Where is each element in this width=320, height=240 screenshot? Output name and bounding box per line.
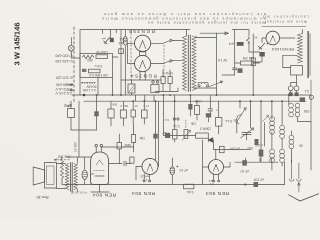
- svg-text:uF 250: uF 250: [230, 147, 240, 151]
- svg-text:4 V: 4 V: [210, 182, 214, 186]
- svg-text:038: 038: [304, 109, 310, 113]
- detector cap C14b dark: [259, 150, 264, 157]
- capacitor C5 box on wire: [119, 49, 124, 54]
- phono jack P1: [288, 86, 293, 91]
- electrolytic C4 oval: [123, 36, 127, 45]
- electrolytic C6: [237, 42, 244, 46]
- wire: [78, 101, 80, 157]
- svg-text:0,5 u: 0,5 u: [95, 64, 102, 68]
- svg-text:400: 400: [87, 58, 93, 62]
- coil tap wires: [283, 55, 298, 67]
- svg-text:V=125-150: V=125-150: [55, 59, 73, 63]
- resistor R21 box: [143, 101, 145, 110]
- svg-text:50 kW: 50 kW: [86, 85, 97, 89]
- grid leak wire: [202, 140, 204, 185]
- wire drop: [234, 29, 236, 68]
- capacitor C1 small box: [82, 69, 86, 72]
- cap C20 dark: [165, 133, 170, 138]
- detector plate wire: [213, 148, 250, 150]
- svg-text:REN 904: REN 904: [132, 190, 155, 196]
- internal electrodes: [94, 170, 106, 172]
- pilot lamp La: [68, 45, 74, 51]
- cap C24 plates: [208, 95, 213, 113]
- resistor R12 box with label: [216, 118, 222, 127]
- band filter BF2 primary: [270, 149, 275, 162]
- cap C18 dark on wire: [242, 160, 247, 165]
- volume control pot: [236, 115, 241, 124]
- mains dashed boundary: [73, 27, 75, 103]
- svg-text:4 V t: 4 V t: [142, 178, 148, 182]
- jack sleeve contacts: [289, 92, 293, 96]
- heater tap line: [121, 79, 161, 81]
- wire drop: [109, 30, 111, 38]
- rectifier tube V1 RGN354: [135, 35, 151, 51]
- junction stubs: [246, 158, 272, 162]
- dropper R20 below bus: [70, 101, 72, 108]
- AF tube V6 REN904: [209, 160, 224, 175]
- svg-text:V=220-240: V=220-240: [55, 53, 73, 57]
- gang dashed line to pot: [185, 120, 187, 129]
- svg-text:10 kW: 10 kW: [74, 142, 78, 152]
- grid feed wire: [101, 146, 133, 148]
- svg-text:REN 904: REN 904: [93, 192, 116, 198]
- svg-text:Rns 302: Rns 302: [58, 155, 71, 159]
- capacitor C7: [233, 68, 237, 70]
- transformer leads: [187, 30, 197, 38]
- shield wire right: [284, 162, 286, 184]
- resistor R8 box: [122, 101, 124, 110]
- audion tube V3: [266, 31, 280, 45]
- grid trimmer marks: [258, 43, 265, 50]
- resistor R5 zigzag: [246, 37, 249, 43]
- cap C10: [96, 95, 98, 111]
- svg-text:4 V 0,3 A 30: 4 V 0,3 A 30: [70, 191, 87, 195]
- svg-text:u2: u2: [162, 131, 166, 135]
- cathode lead: [91, 185, 109, 193]
- resistor R3 box: [89, 69, 101, 73]
- cathode electrolytic C17: [170, 167, 175, 175]
- mains terminal labels (upside-down rows): [55, 53, 73, 95]
- voltage-dropping resistor box (enclosure): [80, 54, 113, 78]
- cap C14: [255, 139, 259, 145]
- svg-text:0,1u: 0,1u: [173, 124, 179, 128]
- detector output wire: [235, 161, 278, 163]
- svg-text:u 160: u 160: [255, 144, 263, 148]
- resistor R18 on chassis wire: [184, 184, 194, 189]
- top cap leads: [96, 147, 101, 152]
- secondary winding: [192, 36, 196, 90]
- svg-text:uF 100: uF 100: [254, 178, 264, 182]
- bottom chassis wire: [63, 184, 285, 186]
- switch contact S1a: [163, 39, 173, 43]
- resistor R2 box 1300 ohm: [96, 55, 108, 59]
- svg-text:4 x 1 kW: 4 x 1 kW: [82, 88, 96, 92]
- heater dropping resistors: [161, 77, 165, 84]
- svg-text:12k 3: 12k 3: [194, 100, 202, 104]
- heater bus lower: [84, 100, 306, 102]
- field coil hatch box: [128, 84, 135, 93]
- svg-text:12k: 12k: [233, 118, 238, 122]
- variable capacitor C13: [242, 133, 251, 135]
- pot drop wire: [236, 122, 238, 133]
- earth clip terminals: [290, 160, 294, 181]
- antenna symbol: [289, 194, 319, 201]
- mains live wire: [79, 30, 81, 95]
- output tube V4 REN904 (dome envelope): [91, 152, 109, 185]
- svg-text:RGN354: RGN354: [129, 29, 155, 34]
- band filter BF2 secondary: [280, 149, 285, 162]
- svg-text:Werk am Freilauf: Werk am Freilauf: [265, 19, 307, 23]
- transformer core: [188, 35, 190, 92]
- bypass cap C19: [254, 182, 259, 187]
- selector arrows into dashed line: [66, 84, 74, 86]
- stub supply line: [232, 28, 248, 30]
- svg-text:0,1u: 0,1u: [225, 119, 232, 123]
- coupling cap C16: [109, 161, 131, 166]
- right edge rail upper: [310, 80, 312, 122]
- socket box: [151, 85, 159, 93]
- grid electrolytic dark: [259, 52, 264, 57]
- resistor R7 below bus: [110, 101, 112, 109]
- wire to right rail: [298, 117, 312, 170]
- filament legs: [144, 174, 149, 181]
- HT feed rail: [252, 34, 254, 95]
- resistor R22 box vertical: [251, 58, 255, 66]
- caption underline: [262, 25, 306, 27]
- antenna terminal circle: [309, 95, 313, 99]
- svg-text:u4: u4: [90, 172, 94, 176]
- cap C21 box on wire: [220, 146, 225, 152]
- mains switch S2 loops: [198, 82, 208, 84]
- svg-text:uF4: uF4: [229, 41, 235, 45]
- svg-text:W 19: W 19: [218, 58, 227, 62]
- note arrow left: [54, 159, 70, 161]
- svg-text:2-0-2=E-V: 2-0-2=E-V: [55, 91, 72, 95]
- detector tube V5 REN904: [142, 158, 158, 174]
- svg-text:10k: 10k: [190, 122, 196, 126]
- svg-text:0,1: 0,1: [304, 89, 309, 93]
- svg-text:17 u: 17 u: [143, 104, 149, 108]
- resistor R11: [196, 101, 198, 105]
- junction dot chassis: [244, 184, 246, 186]
- diode D1: [208, 138, 213, 142]
- svg-text:Werte fur die jenigen gewunsch: Werte fur die jenigen gewunschte Seite a…: [148, 21, 266, 25]
- wire: [250, 101, 252, 128]
- gang dashed line through rectifier: [130, 33, 132, 80]
- svg-text:x1: x1: [254, 36, 258, 40]
- resistor R14 box: [131, 135, 135, 143]
- coil L3 right: [289, 135, 294, 149]
- rectifier tube V2 RGN354: [135, 56, 151, 72]
- coil core: [307, 32, 309, 78]
- tube V2 filament legs to heater line: [140, 71, 145, 80]
- heater bus upper: [72, 94, 311, 96]
- resistor R4 dotted 50k: [82, 82, 96, 84]
- svg-text:3 W 145/146: 3 W 145/146: [13, 22, 22, 65]
- svg-text:a=110-125: a=110-125: [56, 75, 73, 79]
- resistor R10: [174, 101, 176, 129]
- arrow to HT: [200, 32, 228, 35]
- svg-text:15k: 15k: [139, 136, 145, 140]
- heater bus tie stubs: [136, 95, 175, 101]
- svg-text:1W 1500 0,5: 1W 1500 0,5: [89, 73, 108, 77]
- wire: [112, 78, 114, 96]
- output transformer T2: [65, 164, 68, 190]
- capacitor C22 dark between buses: [300, 97, 305, 102]
- grid condenser box: [291, 66, 303, 76]
- grid resistor R13: [117, 143, 122, 149]
- cap C12 dark: [189, 95, 191, 116]
- svg-text:15kW 3: 15kW 3: [200, 126, 211, 130]
- caption text block A (printed upside-down): [102, 12, 266, 25]
- antenna coil L1: [298, 34, 303, 63]
- top supply wire: [80, 29, 190, 31]
- band filter BF1 secondary: [280, 125, 285, 138]
- switch contact S1b: [163, 60, 173, 64]
- dropper resistor R15 zigzag vertical: [60, 159, 63, 179]
- svg-text:uF 10: uF 10: [179, 168, 188, 172]
- band filter BF1 primary: [271, 101, 273, 119]
- primary winding: [183, 36, 187, 90]
- transformer leads: [57, 164, 66, 189]
- wave switch contact: [263, 115, 269, 121]
- terminal circles pair: [173, 118, 175, 120]
- svg-text:37: 37: [134, 104, 138, 108]
- switch gang dashes: [163, 45, 165, 79]
- lamp leads: [71, 38, 80, 59]
- svg-text:RENS1264: RENS1264: [271, 47, 294, 52]
- resistor R16 box small: [130, 157, 134, 163]
- plate feed cap C23: [155, 101, 157, 160]
- potentiometer P3: [184, 130, 188, 139]
- svg-text:10k: 10k: [66, 104, 71, 108]
- svg-text:30: 30: [299, 144, 303, 148]
- svg-text:RGN354: RGN354: [131, 74, 157, 79]
- labels under bus: [112, 102, 149, 108]
- svg-text:0,1: 0,1: [164, 118, 169, 122]
- wire: [260, 101, 262, 120]
- svg-text:30u 2: 30u 2: [120, 104, 128, 108]
- wire: [170, 134, 196, 136]
- svg-text:10 W: 10 W: [166, 71, 173, 75]
- speaker SPK: [33, 167, 44, 185]
- junction dots on buses: [83, 94, 290, 102]
- junction stubs on top wire: [103, 30, 132, 34]
- svg-text:5kW: 5kW: [124, 143, 131, 147]
- resistor R6 box 12k: [241, 61, 254, 65]
- enclosure drop wire: [97, 78, 99, 96]
- resistor R9 box: [132, 101, 134, 110]
- caption text block B (upside-down, right): [263, 15, 309, 24]
- svg-text:50k: 50k: [112, 102, 117, 106]
- phono jack P2: [294, 86, 299, 91]
- svg-text:REN 904: REN 904: [206, 190, 229, 196]
- IF choke L2 double coil: [288, 95, 290, 105]
- svg-text:1300 W: 1300 W: [96, 50, 108, 54]
- resistor R19 box horizontal: [196, 133, 209, 138]
- svg-text:0,4u: 0,4u: [187, 190, 194, 194]
- electrolytic C15 oval: [82, 170, 87, 179]
- trimmer capacitor C2: [104, 38, 110, 44]
- wire from box to tubes: [113, 56, 119, 58]
- capacitor C8 dark: [238, 68, 243, 73]
- jack terminals: [152, 81, 154, 83]
- svg-text:uF 10: uF 10: [240, 169, 249, 173]
- svg-text:Rns 30: Rns 30: [36, 195, 48, 199]
- wire to rectifier: [120, 30, 122, 96]
- electrolytic C3: [110, 38, 114, 42]
- resistor R1 zigzag 400ohm: [83, 55, 94, 59]
